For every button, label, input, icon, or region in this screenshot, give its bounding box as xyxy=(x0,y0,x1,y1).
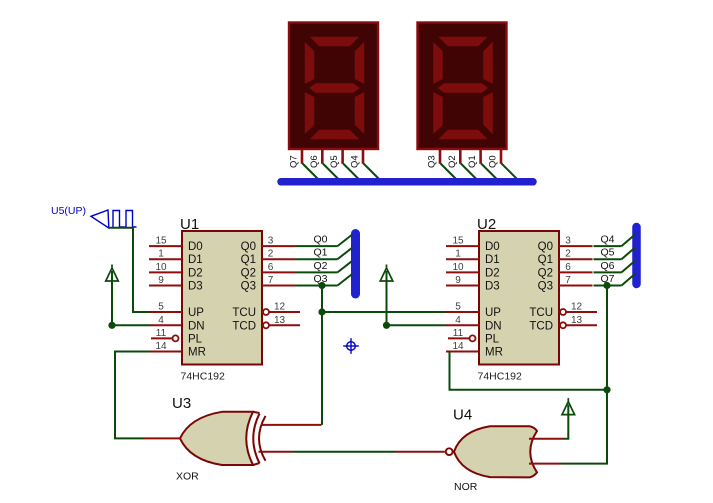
XOR top/bottom edge extensions xyxy=(253,412,260,465)
svg-text:UP: UP xyxy=(485,307,501,319)
wire: power arrow down to DN node xyxy=(111,271,113,325)
svg-text:Q0: Q0 xyxy=(241,241,256,253)
svg-text:12: 12 xyxy=(274,302,286,313)
wire: U1.MR to XOR output xyxy=(115,352,150,439)
NOR input pin stub (bottom) xyxy=(529,463,561,465)
U1 pin 9 (D3) xyxy=(149,275,203,293)
svg-text:9: 9 xyxy=(455,275,461,286)
svg-text:TCD: TCD xyxy=(529,320,553,332)
U2 pin 4 (DN) xyxy=(446,315,502,333)
svg-text:D3: D3 xyxy=(188,281,203,293)
svg-text:Q0: Q0 xyxy=(538,241,553,253)
svg-text:U3: U3 xyxy=(172,395,191,412)
U2 pin 2 (Q1) xyxy=(538,249,593,267)
gate U4 NOR body (mirrored, output left) xyxy=(454,426,537,477)
U1 pin 11 (PL) xyxy=(151,328,203,346)
XOR output pin stub xyxy=(144,437,180,439)
U1 pin 5 (UP) xyxy=(149,302,204,320)
junction at U2.Q3 xyxy=(603,282,610,289)
XOR input pin stub (bottom) xyxy=(259,451,293,453)
U1 pin 10 (D2) xyxy=(149,262,203,280)
bus entry U1 Q0 xyxy=(338,235,353,247)
U2 pin 1 (D1) xyxy=(446,249,500,267)
svg-text:TCU: TCU xyxy=(529,307,553,319)
svg-text:Q5: Q5 xyxy=(601,247,615,259)
XOR second input arc xyxy=(253,414,259,464)
display pin stub Q4 xyxy=(362,150,365,164)
svg-text:Q1: Q1 xyxy=(538,254,553,266)
svg-text:PL: PL xyxy=(188,333,203,345)
display segment f xyxy=(433,40,444,85)
wire: U1.Q3 to bus xyxy=(296,285,338,287)
display segment b xyxy=(354,40,365,85)
svg-text:MR: MR xyxy=(485,347,503,359)
svg-text:13: 13 xyxy=(571,315,583,326)
generator symbol (probe arrow) xyxy=(91,210,109,228)
svg-text:11: 11 xyxy=(453,328,464,339)
bus: vertical bus stub near U2 outputs xyxy=(632,227,641,284)
U2 pin 10 (D2) xyxy=(446,262,500,280)
svg-text:Q2: Q2 xyxy=(538,267,553,279)
wire: display pin Q7 to bus xyxy=(303,164,320,181)
U2 pin 12 (TCU) xyxy=(529,302,597,320)
wire: display pin Q2 to bus xyxy=(461,164,478,181)
svg-text:UP: UP xyxy=(188,307,204,319)
svg-text:15: 15 xyxy=(452,236,464,247)
bus entry U1 Q3 xyxy=(338,274,353,286)
svg-text:Q3: Q3 xyxy=(538,281,553,293)
svg-text:74HC192: 74HC192 xyxy=(181,371,226,383)
junction at UP feed node xyxy=(318,308,325,315)
U1 pin 13 (TCD) xyxy=(232,315,300,333)
display segment d xyxy=(437,129,490,140)
svg-text:Q2: Q2 xyxy=(447,155,458,168)
U1 pin 7 (Q3) xyxy=(241,275,296,293)
svg-text:Q2: Q2 xyxy=(314,260,328,272)
U1 pin 3 (Q0) xyxy=(241,236,296,254)
U1 pin 4 (DN) xyxy=(149,315,205,333)
wire: power arrow down to U2.DN node xyxy=(386,271,388,325)
svg-text:4: 4 xyxy=(455,315,461,326)
gate U3 XOR body (mirrored, output left) xyxy=(180,412,253,465)
svg-text:U5(UP): U5(UP) xyxy=(51,205,86,217)
svg-text:3: 3 xyxy=(565,236,571,247)
svg-text:TCU: TCU xyxy=(232,307,256,319)
wire: display pin Q5 to bus xyxy=(343,164,360,181)
svg-text:Q7: Q7 xyxy=(289,155,300,168)
svg-text:Q2: Q2 xyxy=(241,267,256,279)
U2 pin 3 (Q0) xyxy=(538,236,593,254)
bus: vertical bus stub near U1 outputs xyxy=(351,234,360,295)
svg-text:10: 10 xyxy=(155,262,167,273)
display pin stub Q5 xyxy=(341,150,344,164)
svg-text:DN: DN xyxy=(485,320,502,332)
display segment a xyxy=(308,36,361,47)
display pin stub Q0 xyxy=(500,150,503,164)
wire: U2.Q3 vertical to NOR input xyxy=(561,286,608,464)
svg-text:Q3: Q3 xyxy=(241,281,256,293)
svg-text:6: 6 xyxy=(268,262,274,273)
wire: U2.Q7 to bus xyxy=(594,285,622,287)
junction at MR/NOR node xyxy=(603,386,610,393)
display pin stub Q3 xyxy=(439,150,442,164)
U2 pin 14 (MR) xyxy=(446,341,503,359)
wire: U1.Q0 to bus xyxy=(296,245,338,247)
IC U2 74HC192 body xyxy=(479,231,559,365)
junction at U1.DN xyxy=(108,322,115,329)
svg-text:XOR: XOR xyxy=(176,471,199,483)
display pin stub Q7 xyxy=(301,150,304,164)
origin / reference marker xyxy=(343,338,359,354)
svg-text:MR: MR xyxy=(188,347,206,359)
svg-text:Q5: Q5 xyxy=(329,155,340,168)
XOR outer input arc xyxy=(259,416,266,461)
svg-text:Q4: Q4 xyxy=(350,155,361,168)
svg-text:TCD: TCD xyxy=(232,320,256,332)
svg-text:U1: U1 xyxy=(180,216,199,233)
wire: display pin Q0 to bus xyxy=(502,164,519,181)
display segment f xyxy=(304,40,315,85)
wire: display pin Q6 to bus xyxy=(323,164,340,181)
U1 pin 14 (MR) xyxy=(149,341,206,359)
wire: node to U2.DN xyxy=(387,324,447,326)
wire: XOR bottom input to NOR output xyxy=(293,451,397,453)
7-segment display body xyxy=(418,23,507,150)
display pin stub Q6 xyxy=(321,150,324,164)
svg-text:D1: D1 xyxy=(188,254,203,266)
svg-text:4: 4 xyxy=(158,315,164,326)
svg-text:Q0: Q0 xyxy=(488,155,499,168)
svg-text:12: 12 xyxy=(571,302,583,313)
junction at U2.DN xyxy=(383,322,390,329)
U1 pin 2 (Q1) xyxy=(241,249,296,267)
svg-text:NOR: NOR xyxy=(454,481,478,493)
wire: node to U2.UP xyxy=(322,311,446,313)
svg-text:9: 9 xyxy=(158,275,164,286)
wire: U2.MR down and right xyxy=(450,352,608,390)
display segment c xyxy=(354,91,365,136)
U2 pin 7 (Q3) xyxy=(538,275,593,293)
display segment c xyxy=(483,91,494,136)
U2 pin 13 (TCD) xyxy=(529,315,597,333)
bus entry U2 Q7 xyxy=(622,274,636,286)
U2 pin 6 (Q2) xyxy=(538,262,593,280)
svg-text:11: 11 xyxy=(156,328,167,339)
bus entry U1 Q1 xyxy=(338,248,353,260)
wire: U2.Q6 to bus xyxy=(594,271,622,273)
wire: U1.Q1 to bus xyxy=(296,258,338,260)
svg-text:Q1: Q1 xyxy=(314,247,328,259)
svg-text:10: 10 xyxy=(452,262,464,273)
U1 pin 1 (D1) xyxy=(149,249,203,267)
svg-text:74HC192: 74HC192 xyxy=(478,371,523,383)
svg-text:7: 7 xyxy=(565,275,571,286)
svg-text:6: 6 xyxy=(565,262,571,273)
U2 pin 15 (D0) xyxy=(446,236,500,254)
wire: U2.Q4 to bus xyxy=(594,245,622,247)
svg-text:D1: D1 xyxy=(485,254,500,266)
svg-text:3: 3 xyxy=(268,236,274,247)
svg-text:DN: DN xyxy=(188,320,205,332)
display pin stub Q2 xyxy=(459,150,462,164)
svg-text:7: 7 xyxy=(268,275,274,286)
svg-text:Q1: Q1 xyxy=(467,155,478,168)
power arrow (up) at U2.DN xyxy=(380,265,393,282)
bus entry U1 Q2 xyxy=(338,261,353,273)
svg-text:D0: D0 xyxy=(485,241,500,253)
display segment d xyxy=(308,129,361,140)
IC U1 74HC192 body xyxy=(182,231,262,365)
svg-text:Q4: Q4 xyxy=(601,234,615,246)
bus: main horizontal data bus xyxy=(281,178,533,186)
U1 pin 12 (TCU) xyxy=(232,302,300,320)
svg-text:U4: U4 xyxy=(453,407,472,424)
svg-text:D3: D3 xyxy=(485,281,500,293)
7-segment display body xyxy=(289,23,378,150)
bus entry U2 Q4 xyxy=(622,235,636,247)
XOR input pin stub (top) xyxy=(262,424,322,426)
power arrow (up) at U1.DN xyxy=(106,265,119,282)
display segment e xyxy=(433,91,444,136)
wire: display pin Q4 to bus xyxy=(364,164,381,181)
display pin stub Q1 xyxy=(479,150,482,164)
power arrow (up) at NOR input xyxy=(562,398,575,415)
wire: U1.Q3 vertical down to XOR input xyxy=(321,286,323,425)
bus entry U2 Q5 xyxy=(622,248,636,260)
wire: display pin Q1 to bus xyxy=(481,164,498,181)
svg-text:14: 14 xyxy=(155,341,167,352)
U2 pin 11 (PL) xyxy=(448,328,500,346)
NOR input pin stub (top) xyxy=(529,438,564,440)
NOR output pin stub xyxy=(396,451,445,453)
svg-text:5: 5 xyxy=(158,302,164,313)
wire: node to U1.DN xyxy=(112,324,150,326)
svg-text:5: 5 xyxy=(455,302,461,313)
svg-text:13: 13 xyxy=(274,315,286,326)
U1 pin 6 (Q2) xyxy=(241,262,296,280)
wire: display pin Q3 to bus xyxy=(441,164,458,181)
wire: U2.Q5 to bus xyxy=(594,258,622,260)
wire: generator to U1.UP xyxy=(109,228,150,312)
svg-text:14: 14 xyxy=(452,341,464,352)
U1 pin 15 (D0) xyxy=(149,236,203,254)
U2 pin 9 (D3) xyxy=(446,275,500,293)
svg-text:PL: PL xyxy=(485,333,500,345)
svg-text:U2: U2 xyxy=(477,216,496,233)
svg-text:Q6: Q6 xyxy=(309,155,320,168)
display segment g xyxy=(308,83,361,94)
display segment b xyxy=(483,40,494,85)
generator pulse waveform icon xyxy=(113,211,137,228)
display segment g xyxy=(437,83,490,94)
svg-text:Q0: Q0 xyxy=(314,234,328,246)
U2 pin 5 (UP) xyxy=(446,302,501,320)
svg-text:Q1: Q1 xyxy=(241,254,256,266)
wire: U1.Q2 to bus xyxy=(296,271,338,273)
svg-text:D2: D2 xyxy=(188,267,203,279)
svg-text:1: 1 xyxy=(158,249,164,260)
display segment a xyxy=(437,36,490,47)
junction at U1.Q3 xyxy=(318,282,325,289)
bus entry U2 Q6 xyxy=(622,261,636,273)
svg-text:Q3: Q3 xyxy=(427,155,438,168)
svg-text:15: 15 xyxy=(155,236,167,247)
wire: power arrow to NOR top input xyxy=(564,405,569,439)
svg-text:Q6: Q6 xyxy=(601,260,615,272)
svg-text:1: 1 xyxy=(455,249,461,260)
svg-text:D0: D0 xyxy=(188,241,203,253)
display segment e xyxy=(304,91,315,136)
svg-text:D2: D2 xyxy=(485,267,500,279)
svg-text:2: 2 xyxy=(565,249,571,260)
svg-text:2: 2 xyxy=(268,249,274,260)
NOR output inversion bubble xyxy=(446,448,453,455)
